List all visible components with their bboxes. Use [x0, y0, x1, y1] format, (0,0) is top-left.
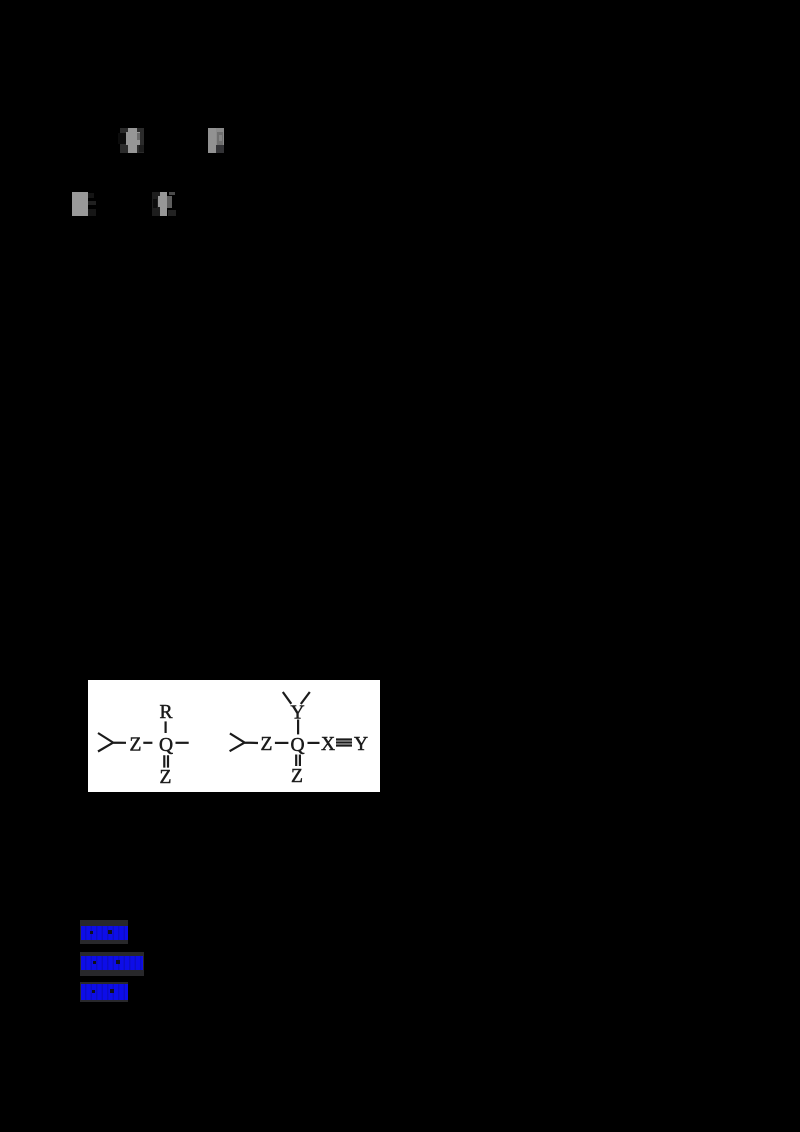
svg-text:Q: Q — [291, 735, 305, 756]
svg-text:Y: Y — [291, 703, 305, 724]
svg-text:Z: Z — [130, 735, 142, 756]
svg-text:X: X — [321, 734, 335, 755]
svg-text:Z: Z — [261, 734, 273, 755]
svg-text:Z: Z — [160, 767, 172, 788]
svg-text:Q: Q — [159, 735, 173, 756]
svg-text:Z: Z — [291, 766, 303, 787]
svg-text:R: R — [159, 702, 172, 723]
svg-text:Y: Y — [354, 734, 368, 755]
